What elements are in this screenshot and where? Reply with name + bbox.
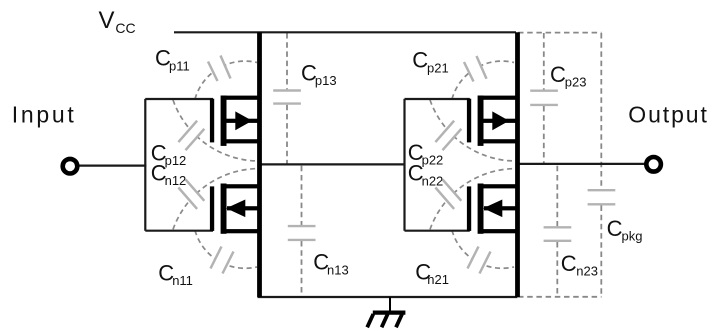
transistor NMOS M4 — [467, 184, 518, 234]
value label Cn12 — [151, 161, 187, 189]
wire stage1 output to stage2 gate box — [260, 163, 405, 165]
svg-text:p13: p13 — [315, 73, 337, 88]
capacitor Cn23 plates — [544, 227, 572, 241]
value label Cn21 — [415, 259, 449, 287]
capacitor Cp13 lead wires — [286, 33, 288, 164]
capacitor Cp11 plates — [208, 56, 231, 82]
capacitor Cn22 plates — [435, 179, 461, 209]
capacitor Cn12 arc (gate to drain node) — [173, 169, 258, 230]
capacitor Cn12 plates — [178, 179, 204, 209]
value label Cn23 — [561, 251, 598, 279]
svg-text:C: C — [607, 216, 623, 241]
svg-text:C: C — [550, 62, 566, 87]
capacitor Cp12 plates — [178, 121, 204, 151]
value label Cn11 — [158, 261, 193, 289]
capacitor Cp12 arc (gate to drain node) — [173, 100, 258, 161]
wire ground bottom rail — [258, 296, 518, 298]
wire dashed top rail extension — [518, 32, 602, 34]
capacitor Cpkg plates — [588, 190, 616, 204]
wire stage2 drain-source rail — [515, 32, 520, 297]
capacitor Cn11 arc (gate to ground) — [195, 230, 257, 268]
node output terminal — [646, 157, 661, 172]
transistor PMOS M1 — [210, 96, 260, 146]
capacitor Cp22 arc (gate to drain node) — [430, 100, 515, 161]
capacitor Cn23 lead wires — [556, 166, 558, 296]
capacitor Cn21 arc (gate to ground) — [452, 230, 514, 268]
value label Cp11 — [155, 46, 190, 74]
value label Cp22 — [408, 140, 444, 168]
gap mask Cp22 — [435, 121, 461, 151]
value label Cp23 — [550, 62, 587, 90]
wire stage1 drain-source rail — [257, 32, 262, 297]
svg-text:p11: p11 — [169, 58, 190, 73]
value label Cp13 — [301, 61, 337, 89]
capacitor Cp11 arc (gate to VCC) — [195, 61, 257, 99]
svg-text:CC: CC — [115, 20, 135, 36]
gap mask Cn11 — [211, 247, 234, 274]
svg-text:n11: n11 — [172, 273, 193, 288]
svg-text:n13: n13 — [327, 262, 349, 277]
net label VCC — [99, 7, 136, 36]
capacitor Cn22 arc (gate to drain node) — [430, 169, 515, 230]
value label Cp21 — [412, 48, 448, 76]
wire VCC top rail — [174, 31, 516, 33]
value label Cn22 — [408, 161, 444, 189]
capacitor Cn13 lead wires — [301, 166, 303, 296]
svg-text:V: V — [99, 7, 115, 34]
node gate box stage 2 — [405, 99, 470, 231]
wire input to gate box — [79, 165, 146, 167]
svg-text:p22: p22 — [422, 152, 444, 167]
capacitor Cn13 plates — [288, 226, 316, 240]
svg-text:pkg: pkg — [622, 229, 643, 244]
svg-text:p12: p12 — [165, 153, 187, 168]
capacitor Cp21 plates — [464, 56, 487, 82]
capacitor Cn11 plates — [211, 247, 234, 274]
svg-text:n12: n12 — [165, 173, 187, 188]
capacitor Cp23 plates — [530, 91, 558, 105]
svg-text:p23: p23 — [565, 75, 587, 90]
svg-text:C: C — [561, 251, 577, 276]
svg-text:n22: n22 — [422, 173, 444, 188]
svg-text:n23: n23 — [576, 264, 598, 279]
gap mask Cp11 — [208, 56, 231, 82]
capacitor Cpkg lead wires — [600, 33, 602, 296]
svg-text:p21: p21 — [427, 60, 449, 75]
capacitor Cp22 plates — [435, 121, 461, 151]
wire dashed bottom rail extension — [518, 296, 602, 298]
capacitor Cp13 plates — [273, 91, 301, 104]
gap mask Cp12 — [178, 121, 204, 151]
gap mask Cp21 — [464, 56, 487, 82]
svg-text:C: C — [412, 48, 428, 73]
svg-text:n21: n21 — [427, 272, 449, 287]
ground — [367, 297, 405, 327]
node input terminal — [63, 159, 78, 174]
capacitor Cn21 plates — [468, 247, 491, 274]
capacitor Cp23 lead wires — [543, 33, 545, 164]
svg-text:Input: Input — [12, 101, 77, 127]
value label Cp12 — [151, 140, 187, 168]
transistor PMOS M3 — [467, 96, 518, 146]
gap mask Cn12 — [178, 179, 204, 209]
node gate box stage 1 — [145, 99, 213, 231]
wire stage2 output to terminal — [518, 163, 645, 165]
gap mask Cn22 — [435, 179, 461, 209]
value label Cpkg — [607, 216, 643, 244]
capacitor Cp21 arc (gate to VCC) — [452, 61, 514, 99]
value label Cn13 — [313, 250, 349, 278]
transistor NMOS M2 — [210, 184, 260, 234]
svg-text:Output: Output — [628, 101, 708, 127]
gap mask Cn21 — [468, 247, 491, 274]
